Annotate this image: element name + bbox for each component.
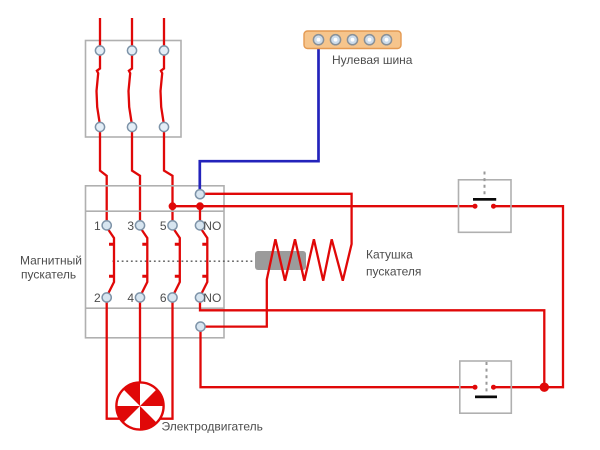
svg-text:Электродвигатель: Электродвигатель: [162, 420, 263, 434]
svg-text:1: 1: [94, 219, 101, 233]
contactor terminal circles row 2: [102, 293, 111, 302]
bus washer 5: [381, 35, 391, 45]
wire contact 6 to motor: [158, 302, 173, 419]
main contact 5-6: [174, 230, 180, 294]
coil terminal A2: [196, 322, 205, 331]
wire contact 2 to motor: [107, 302, 122, 419]
stop button stem: [484, 172, 486, 198]
svg-text:пускателя: пускателя: [366, 265, 421, 279]
contactor terminal circles row 1: [102, 221, 111, 230]
svg-text:Катушка: Катушка: [366, 248, 413, 262]
breaker box QF: [86, 41, 182, 138]
start button SB2 box: [460, 361, 512, 413]
aux contact NO: [202, 230, 208, 294]
breaker pole 3 contact: [161, 55, 165, 123]
mechanical linkage dotted line: [113, 260, 256, 262]
main contact 3-4: [142, 230, 148, 294]
start button stem: [486, 362, 488, 395]
motor M: [116, 382, 163, 429]
svg-text:2: 2: [94, 291, 101, 305]
svg-text:Магнитный: Магнитный: [20, 254, 82, 268]
junction dot aux top: [196, 202, 204, 210]
contactor bottom strip divider: [86, 307, 225, 309]
wire L2 breaker to contactor: [132, 132, 140, 222]
wire aux NO holding contact to junction: [200, 302, 544, 387]
bus washer 2: [330, 35, 340, 45]
breaker terminal circles: [95, 46, 104, 55]
breaker pole 1 contact: [97, 55, 101, 123]
bus washer 1: [313, 35, 323, 45]
svg-text:6: 6: [160, 291, 167, 305]
wire phase L1 top lead: [99, 18, 101, 47]
start button NO bar: [475, 396, 497, 399]
wire phase L2 top lead: [131, 18, 133, 47]
svg-text:пускатель: пускатель: [21, 268, 76, 282]
svg-text:4: 4: [127, 291, 134, 305]
wire L1 breaker to contactor: [100, 132, 107, 222]
start button terminal dots: [473, 385, 478, 390]
coil core: [255, 251, 306, 270]
wire L3 breaker to contactor: [164, 132, 173, 222]
bus washer 3: [347, 35, 357, 45]
wire coil A1 to coil and winding KM1: [205, 194, 352, 327]
breaker pole 2 contact: [129, 55, 133, 123]
wire start button right segment: [494, 386, 545, 388]
svg-text:5: 5: [160, 219, 167, 233]
coil terminal A1: [195, 190, 204, 199]
neutral bus wire (blue): [200, 43, 319, 191]
stop button NC bar: [473, 198, 496, 201]
junction dot at start button: [540, 383, 549, 392]
main contact 1-2: [108, 230, 114, 294]
svg-text:NO: NO: [203, 219, 221, 233]
bus washer 4: [364, 35, 374, 45]
stop button SB1 box: [459, 180, 512, 233]
wire junction to aux NO top: [199, 206, 201, 222]
contactor top strip divider: [86, 210, 225, 212]
junction dot phase tap: [169, 202, 177, 210]
wire phase L3 top lead: [163, 18, 165, 47]
contactor box KM: [86, 186, 225, 338]
svg-text:Нулевая шина: Нулевая шина: [332, 53, 413, 67]
svg-text:3: 3: [127, 219, 134, 233]
stop button terminal dots: [473, 204, 478, 209]
svg-text:NO: NO: [203, 291, 221, 305]
neutral bus bar: [304, 31, 401, 49]
wire contact 4 to motor: [139, 302, 141, 383]
wire coil A2 to start button left side: [201, 331, 476, 387]
wire control tap to stop button: [173, 205, 476, 207]
wire stop button to start button right side: [494, 206, 564, 387]
